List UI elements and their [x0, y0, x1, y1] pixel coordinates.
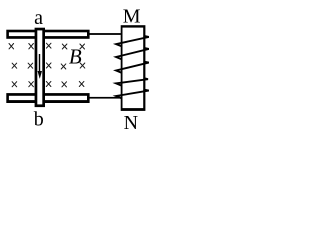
- coil MN core rectangle: [121, 25, 146, 111]
- coil winding turn 2: [116, 48, 149, 59]
- arrow v (velocity, downward): [38, 54, 43, 79]
- coil winding turn 1: [116, 36, 149, 47]
- wire top lead to coil: [89, 33, 121, 35]
- coil winding turn 5: [116, 90, 149, 99]
- field cross row 1: [9, 43, 85, 49]
- conducting rod ab (slider): [35, 28, 45, 107]
- svg-text:M: M: [123, 5, 141, 27]
- rail bottom (horizontal conducting rail): [6, 93, 89, 103]
- svg-text:B: B: [69, 44, 82, 68]
- svg-text:N: N: [124, 112, 138, 134]
- wire bottom lead to coil: [89, 97, 121, 99]
- coil winding turn 3: [116, 62, 149, 73]
- field cross row 2: [12, 63, 85, 69]
- field cross row 3: [12, 81, 84, 87]
- coil winding turn 4: [116, 78, 148, 86]
- rail top (horizontal conducting rail): [6, 30, 89, 39]
- svg-text:a: a: [34, 7, 43, 29]
- svg-text:b: b: [34, 108, 44, 130]
